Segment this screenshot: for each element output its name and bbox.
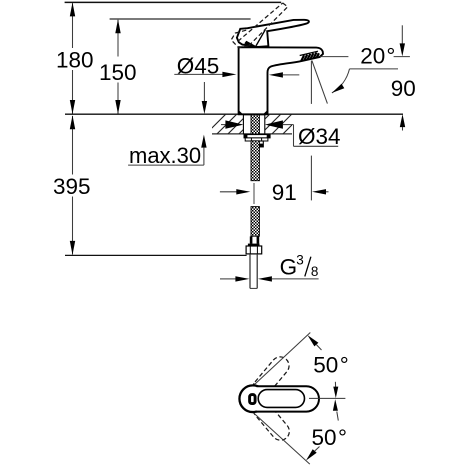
svg-text:180: 180 — [56, 48, 94, 73]
dimension Ø34 — [221, 124, 226, 126]
outer lever outline plan — [257, 386, 319, 411]
svg-text:50: 50 — [313, 353, 338, 378]
flex hose segment 1 — [251, 141, 259, 181]
hose crimp — [250, 236, 253, 243]
upper 50 arrowhead on slant line — [308, 335, 319, 346]
wire: extension line top (raised lever height) — [65, 1, 282, 3]
lower 50 small arrow at centerline — [337, 412, 339, 421]
counter bottom line — [212, 133, 292, 135]
svg-text:Ø34: Ø34 — [298, 124, 341, 149]
20 degree leader and arc — [350, 68, 399, 70]
svg-text:8: 8 — [311, 264, 319, 279]
dimension 180 line — [72, 3, 74, 48]
max.30 top arrow — [203, 82, 205, 102]
washer under counter — [244, 135, 270, 138]
hose break centerline — [253, 183, 255, 204]
svg-text:50: 50 — [312, 425, 337, 450]
dashed swung lever upper — [249, 353, 292, 400]
max.30 leader — [128, 164, 204, 166]
dimension 91 — [220, 191, 237, 193]
mounting sleeve through counter — [243, 115, 264, 134]
wire: extension line 150 level — [110, 18, 251, 20]
svg-text:°: ° — [386, 44, 395, 69]
dashed raised lever tip — [283, 3, 288, 7]
body base corner wedges — [239, 110, 243, 114]
body circle plan — [239, 385, 266, 412]
faucet body and spout — [239, 47, 323, 114]
svg-text:91: 91 — [272, 180, 297, 205]
mounting nut — [245, 138, 268, 141]
second hose sleeve — [253, 141, 263, 147]
slant line lower 50deg — [254, 413, 310, 464]
svg-text:395: 395 — [53, 174, 91, 199]
threaded rod upper — [251, 115, 259, 134]
aerator hatch — [301, 52, 319, 61]
centerline plan — [309, 397, 345, 399]
counter hatch left — [206, 114, 259, 134]
bottom reference line — [65, 254, 247, 256]
svg-text:°: ° — [338, 425, 347, 450]
svg-text:20: 20 — [360, 44, 385, 69]
svg-text:150: 150 — [99, 60, 137, 85]
dimension 150 line — [117, 20, 119, 57]
svg-text:90: 90 — [391, 76, 416, 101]
lever base wedge — [244, 41, 257, 47]
svg-text:°: ° — [340, 353, 349, 378]
upper 50 small arrow at centerline — [334, 382, 336, 392]
G3/8 nut — [246, 246, 262, 254]
svg-text:max.30: max.30 — [129, 143, 201, 168]
dimension 395 line — [72, 116, 74, 175]
counter top line — [65, 113, 403, 115]
lever handle (down position) — [237, 20, 309, 47]
dimension 90 — [401, 25, 403, 44]
spout level extension line — [320, 56, 348, 58]
20 degree reference lines — [310, 61, 312, 104]
svg-text:Ø45: Ø45 — [177, 53, 220, 78]
dimension Ø45 — [174, 73, 223, 75]
lower 50 arrowhead on slant line — [306, 449, 317, 460]
svg-text:G: G — [280, 255, 298, 280]
inner lever outline plan — [258, 390, 304, 408]
svg-text:3: 3 — [296, 252, 304, 267]
lever inner divider — [256, 30, 265, 46]
spout aerator inner edge — [300, 51, 318, 55]
dashed raised grip — [231, 30, 249, 48]
dashed raised lever edge A — [238, 3, 283, 41]
dashed raised lever edge B — [249, 7, 288, 46]
flex hose segment 2 — [251, 207, 259, 237]
slant line upper 50deg — [253, 333, 310, 386]
slot on circle — [250, 395, 256, 404]
dashed swung lever lower — [250, 397, 293, 444]
dimension G3/8 — [220, 278, 236, 280]
connection tube — [249, 254, 251, 289]
counter hatch right — [250, 114, 303, 134]
